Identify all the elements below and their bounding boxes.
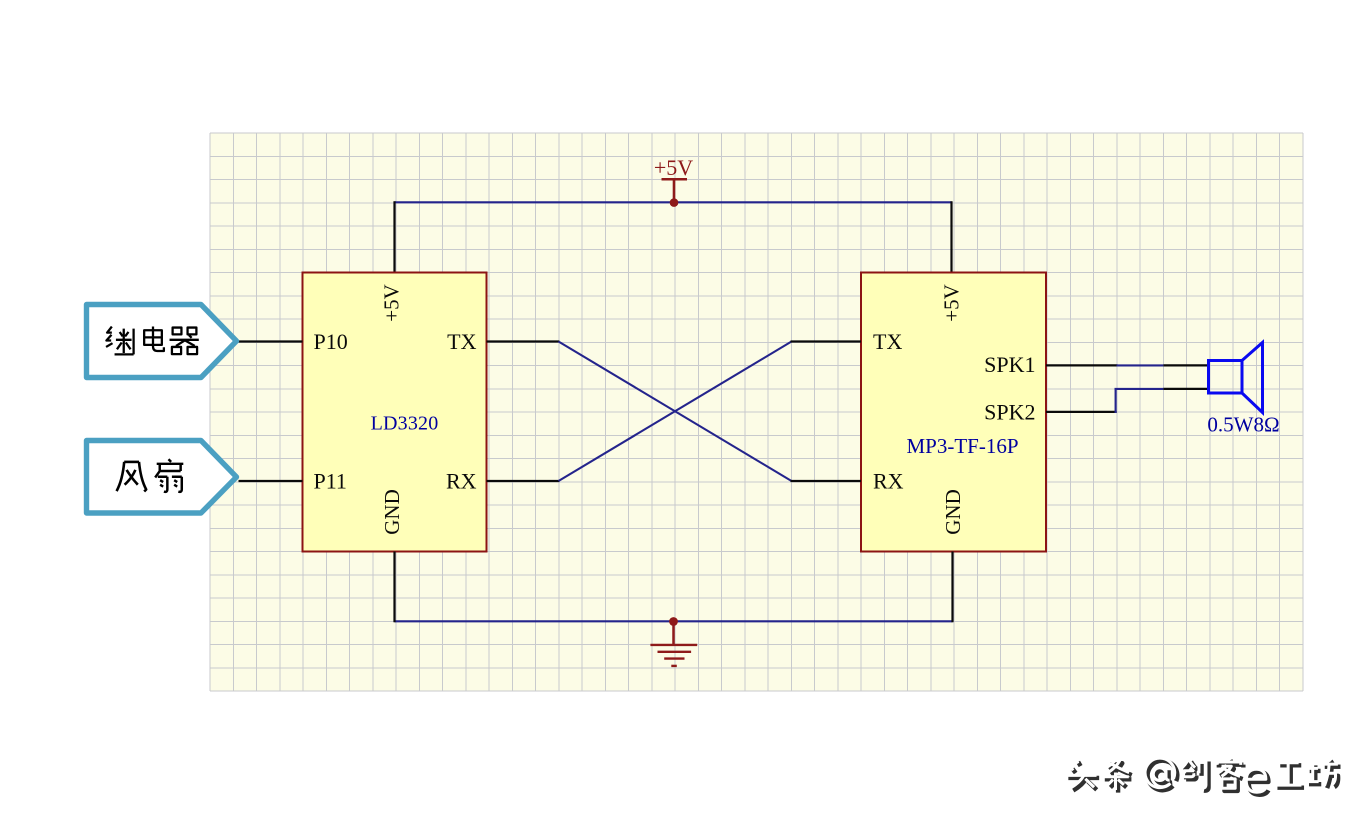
wire U2 RX stub [791,480,862,482]
svg-text:0.5W8Ω: 0.5W8Ω [1207,413,1279,437]
wire diagonal U1.TX to U2.RX [559,342,792,482]
svg-text:+5V: +5V [380,284,404,322]
junction dot on +5V net [670,198,679,207]
wire SPK2 vertical step [1115,389,1117,413]
svg-text:+5V: +5V [654,155,693,180]
wire SPK1 segment blue [1117,364,1164,366]
junction dot on GND net [669,617,678,626]
svg-text:RX: RX [446,468,477,493]
wire diagonal U1.RX to U2.TX [559,342,792,482]
wire SPK1 segment black b [1163,364,1208,366]
chip U2 MP3-TF-16P [861,273,1046,552]
svg-text:P10: P10 [314,329,348,354]
wire vertical U1 GND to net [393,552,395,623]
wire SPK2 segment black a [1046,411,1117,413]
callout flag 风扇 (fan) [87,441,237,514]
svg-text:GND: GND [941,489,965,535]
callout flag 继电器 (relay) [87,305,237,378]
watermark 头条 @创客e工坊 [1066,758,1341,795]
wire P10 stub from callout to U1 [239,340,303,342]
svg-text:TX: TX [447,329,476,354]
svg-text:+5V: +5V [940,284,964,322]
wire SPK2 segment blue [1115,388,1164,390]
svg-text:LD3320: LD3320 [371,413,439,435]
svg-text:TX: TX [873,329,902,354]
power symbol +5V [654,155,693,202]
wire U1 TX stub [487,340,560,342]
wire vertical from +5V net to U1 top pin [393,201,395,272]
svg-text:MP3-TF-16P: MP3-TF-16P [906,434,1018,458]
wire P11 stub from callout to U1 [239,480,303,482]
wire SPK1 segment black a [1046,364,1118,366]
svg-text:P11: P11 [314,468,347,493]
ground symbol [650,621,697,666]
svg-text:SPK2: SPK2 [984,399,1035,424]
wire GND bottom horizontal (net GND) [395,620,953,622]
wire vertical from +5V net to U2 top pin [950,201,952,272]
svg-text:GND: GND [380,489,404,535]
svg-text:RX: RX [873,468,904,493]
schematic sheet background [210,133,1303,691]
chip U1 LD3320 [303,273,487,552]
wire U1 RX stub [487,480,560,482]
wire U2 TX stub [791,340,862,342]
wire vertical U2 GND to net [951,552,953,623]
svg-text:SPK1: SPK1 [984,352,1035,377]
wire +5V top horizontal (net +5V) [395,201,952,203]
wire SPK2 segment black b [1163,388,1208,390]
speaker LS1 symbol [1209,343,1263,413]
